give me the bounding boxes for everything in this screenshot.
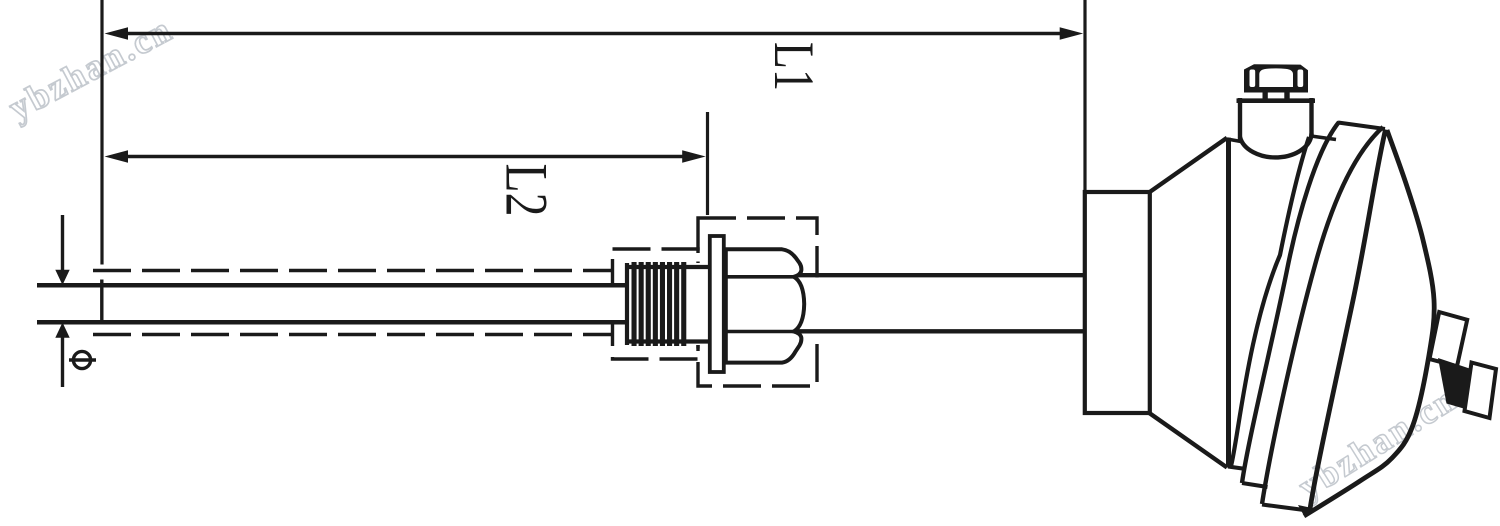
extension line left [100, 0, 103, 265]
extension line right (head flange face) [1083, 0, 1086, 192]
dome tip wedge [1298, 505, 1312, 518]
lid band bottom face B [1262, 505, 1308, 511]
washer flange [710, 236, 724, 372]
tube left end cap [100, 280, 103, 325]
L2 dimension line [120, 155, 692, 159]
link boss to lid [1311, 136, 1336, 140]
phi lower arrow shaft [61, 336, 64, 387]
watermark top-left [2, 8, 179, 128]
dimension Phi [61, 215, 64, 387]
phi upper arrow shaft [61, 215, 64, 271]
dimension L2 [120, 112, 708, 215]
lid rim front edge [1231, 137, 1309, 466]
lid band bottom face A [1242, 483, 1268, 487]
lid band top face [1338, 123, 1385, 130]
hex nut [726, 249, 804, 362]
dashed box around thread [613, 249, 699, 359]
dashed line above probe tube [93, 269, 614, 272]
phi symbol [69, 351, 96, 368]
thread block outline [625, 263, 710, 345]
lid rim back edge [1242, 122, 1339, 483]
watermark bottom-right [1291, 378, 1464, 507]
svg-text:L1: L1 [762, 42, 825, 91]
probe tube [37, 280, 625, 325]
L1 arrowheads [105, 27, 129, 40]
L2 arrowheads [105, 150, 129, 163]
neck flange [1085, 192, 1150, 413]
extension line right [706, 112, 709, 215]
wire [37, 320, 625, 325]
lid cover left edge [1262, 127, 1383, 504]
cable gland inner block [1430, 312, 1468, 366]
dome base edge [1310, 130, 1386, 510]
hex nut facet line lower [726, 330, 795, 334]
svg-text:L2: L2 [494, 164, 560, 217]
cable gland black spacer [1438, 358, 1471, 410]
drum front edge [1226, 138, 1231, 468]
cable gland outer block [1465, 363, 1497, 419]
dome arc [1304, 130, 1434, 516]
wire [793, 273, 1086, 277]
wire [37, 283, 625, 288]
dashed envelope lines [93, 218, 817, 386]
cap screw [1244, 64, 1308, 99]
phi arrowhead down [55, 270, 69, 285]
threaded fitting [625, 236, 804, 372]
cone bottom edge [1149, 413, 1227, 468]
link apex to boss [1227, 139, 1241, 142]
boss cylinder [1237, 98, 1316, 157]
link drum bottom to lid [1228, 467, 1246, 470]
dashed line below probe tube [93, 333, 614, 336]
wire [793, 329, 1086, 333]
thread block white body [625, 263, 709, 345]
cone top edge [1149, 138, 1227, 193]
pipe to head [793, 275, 1086, 331]
connection head [1085, 64, 1496, 517]
thread stripes [632, 262, 687, 346]
dimension L1 [102, 0, 1085, 265]
hex nut facet line upper [726, 275, 795, 279]
phi arrowhead up [55, 323, 69, 338]
dashed box around nut [698, 218, 817, 386]
L1 dimension line [120, 32, 1070, 36]
